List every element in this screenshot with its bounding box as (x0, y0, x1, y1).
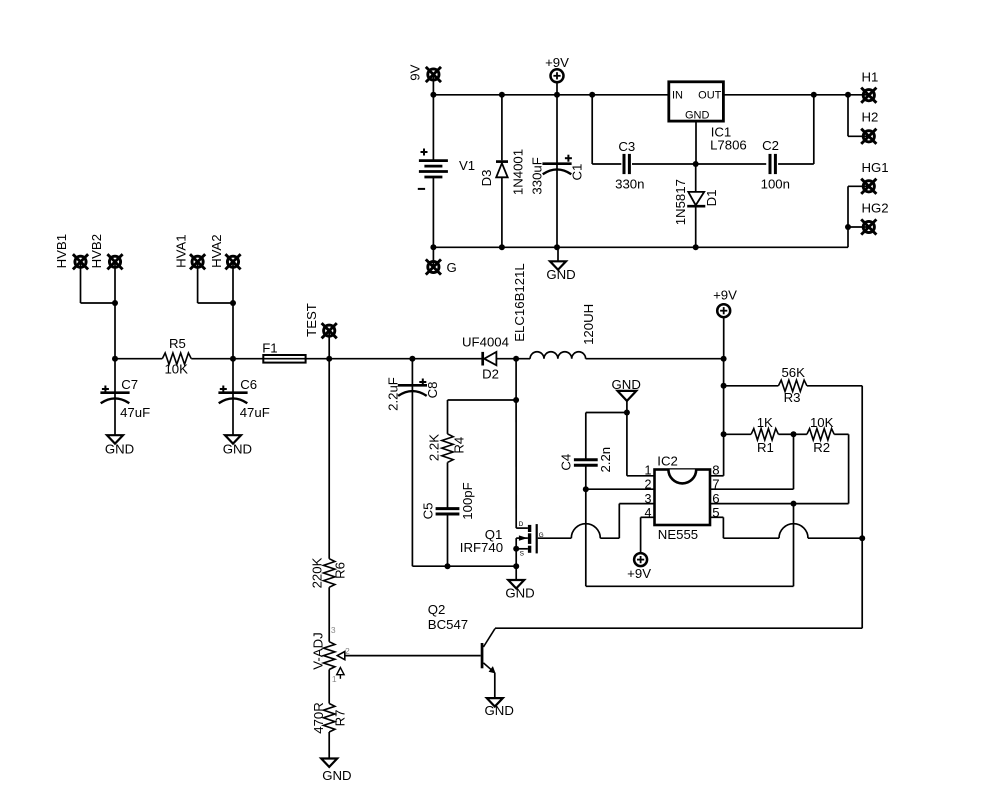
wire HG2 stub (848, 226, 869, 228)
svg-text:330n: 330n (615, 177, 644, 192)
node junction GND pin (693, 161, 699, 167)
pin number 1 (645, 463, 652, 477)
node junction IN branch (589, 92, 595, 98)
svg-text:GND: GND (546, 267, 575, 282)
terminal G (426, 247, 441, 274)
svg-text:10K: 10K (810, 415, 834, 430)
capacitor C4 (574, 460, 598, 465)
svg-text:100n: 100n (761, 176, 790, 191)
wire HG branch (848, 186, 869, 247)
label 330n (615, 177, 644, 192)
ground above 555 (618, 391, 637, 413)
wire bottom left rail (412, 565, 516, 567)
wire wiper to Q2 base (345, 655, 481, 657)
op-amp IC2 box (655, 470, 711, 526)
wire OUT to H1 (723, 94, 868, 96)
ground under R7 (321, 759, 337, 767)
svg-text:2: 2 (645, 477, 652, 491)
svg-text:7: 7 (712, 476, 719, 491)
label HG1 (862, 160, 889, 175)
node junction OUT C2 (811, 92, 817, 98)
terminal TEST (322, 323, 337, 359)
pin number 7 (712, 476, 719, 491)
label 10K R5 (164, 361, 188, 376)
svg-text:R5: R5 (169, 336, 186, 351)
svg-text:R2: R2 (813, 440, 830, 455)
resistor R3 (724, 380, 863, 391)
svg-text:220K: 220K (310, 557, 325, 588)
svg-text:C5: C5 (421, 503, 436, 520)
wire R1R2 to pin7 (710, 434, 794, 489)
wire pin6 down to bottom (586, 504, 794, 587)
label 330uF (530, 157, 545, 194)
wire C3 to C2 (632, 163, 766, 165)
svg-text:Q2: Q2 (428, 602, 446, 617)
wire C5 down (447, 514, 449, 566)
wire H2 branch (848, 95, 869, 137)
label GND under C6 (223, 441, 252, 456)
svg-text:S: S (520, 551, 525, 558)
label V1 (459, 158, 475, 173)
ground under C1 (550, 247, 566, 269)
svg-text:V1: V1 (459, 158, 475, 173)
wire pin2 (586, 488, 655, 490)
label R3 (784, 390, 801, 405)
svg-text:5: 5 (712, 505, 719, 520)
svg-text:R1: R1 (757, 440, 774, 455)
label GND under C7 (105, 441, 134, 456)
pin number 3 pot (331, 625, 336, 635)
label D1 (704, 190, 719, 207)
svg-text:4: 4 (645, 506, 652, 520)
svg-text:100pF: 100pF (460, 482, 475, 519)
power +9V top (551, 69, 564, 95)
node junction pin5 R3 (859, 535, 865, 541)
label 1N5817 (673, 179, 688, 225)
label V-ADJ (310, 632, 325, 669)
transistor Q1 drain wire (516, 400, 528, 528)
svg-text:R4: R4 (451, 437, 466, 454)
label 56K (781, 365, 805, 380)
battery V1 (418, 95, 448, 248)
svg-text:C8: C8 (425, 382, 440, 399)
diode D3 (496, 95, 508, 248)
ground under Q2 (487, 698, 503, 706)
diode D2 (483, 352, 530, 366)
label C3 (618, 139, 635, 154)
label L7806 (710, 137, 747, 152)
wire R4 top (448, 400, 517, 434)
svg-text:HG2: HG2 (862, 201, 889, 216)
node junction D3 top (499, 92, 505, 98)
node junction HG2 (845, 224, 851, 230)
wire pin5 (710, 517, 862, 538)
node junction R3 left (721, 383, 727, 389)
wire bottom rail top circuit (433, 246, 848, 248)
wire pot to R7 (328, 670, 330, 704)
wire pin3 (600, 504, 654, 539)
svg-text:120UH: 120UH (581, 304, 596, 345)
label HVB1 (54, 234, 69, 268)
label HVB2 (89, 234, 104, 268)
label 47uF C7 (120, 405, 150, 420)
fuse F1 (263, 355, 305, 363)
label 100n (761, 176, 790, 191)
capacitor C2 (770, 154, 775, 174)
node junction C1 bottom (554, 244, 560, 250)
svg-text:GND: GND (485, 703, 514, 718)
label IC2 (657, 454, 678, 469)
ground under C7 (107, 435, 123, 443)
node junction R1 R2 (791, 431, 797, 437)
svg-text:3: 3 (645, 492, 652, 506)
label 2.2K (427, 434, 442, 461)
transistor Q1 (516, 521, 543, 566)
node junction C5 bottom (445, 563, 451, 569)
svg-text:GND: GND (223, 441, 252, 456)
svg-text:L7806: L7806 (710, 137, 747, 152)
svg-text:R6: R6 (333, 562, 348, 579)
resistor R7 (324, 704, 335, 733)
label Q1 (485, 527, 503, 542)
svg-text:C2: C2 (762, 138, 779, 153)
svg-text:D1: D1 (704, 190, 719, 207)
svg-text:D: D (519, 521, 524, 528)
svg-text:G: G (447, 260, 457, 275)
label IRF740 (460, 540, 503, 555)
svg-text:9V: 9V (407, 64, 422, 80)
wire IC1 GND pin (695, 121, 697, 164)
svg-text:R3: R3 (784, 390, 801, 405)
label GND under Q1 (505, 586, 534, 601)
resistor R2 (794, 429, 849, 504)
label Q2 (428, 602, 446, 617)
op-amp IC1 regulator box (669, 82, 724, 122)
capacitor C5 (436, 509, 460, 514)
svg-text:GND: GND (505, 586, 534, 601)
node junction C7 top (112, 356, 118, 362)
capacitor C3 (624, 154, 629, 174)
svg-text:47uF: 47uF (240, 405, 270, 420)
terminal 9V (426, 67, 441, 95)
pin number 2 pot (345, 646, 350, 656)
terminal HG1 (861, 179, 876, 194)
resistor R6 (324, 559, 335, 588)
wire Vcc vertical (710, 359, 724, 476)
node junction C6 top (230, 356, 236, 362)
wire top rail (433, 94, 668, 96)
wire C4 bottom (585, 466, 587, 586)
svg-text:GND: GND (105, 441, 134, 456)
svg-text:C4: C4 (559, 454, 574, 471)
svg-text:C7: C7 (121, 377, 138, 392)
label HG2 (862, 201, 889, 216)
svg-text:IN: IN (672, 90, 683, 102)
potentiometer V-ADJ (324, 642, 345, 679)
label NE555 (658, 527, 698, 542)
resistor R1 (724, 429, 794, 440)
label 1K (757, 415, 773, 430)
svg-text:C1: C1 (569, 164, 584, 181)
wire inductor to +9V node (586, 358, 724, 360)
svg-text:2.2uF: 2.2uF (386, 377, 401, 411)
label C8 (425, 382, 440, 399)
label R5 (169, 336, 186, 351)
svg-text:F1: F1 (262, 340, 277, 355)
wire switch node down (515, 359, 517, 400)
terminal HG2 (861, 219, 876, 234)
label 100pF (460, 482, 475, 519)
wire gnd to C4 (586, 413, 627, 459)
svg-text:IRF740: IRF740 (460, 540, 503, 555)
label 120UH (581, 304, 596, 345)
diode D1 (687, 164, 705, 247)
node junction H2 branch (845, 92, 851, 98)
label C6 (240, 377, 257, 392)
node junction +9V rail (721, 356, 727, 362)
label F1 (262, 340, 277, 355)
node junction switch node (513, 356, 519, 362)
svg-text:1K: 1K (757, 415, 773, 430)
label D2 (482, 366, 499, 381)
svg-text:ELC16B121L: ELC16B121L (512, 263, 527, 341)
label G (447, 260, 457, 275)
node junction gnd C4 (624, 410, 630, 416)
node junction G (430, 244, 436, 250)
label GND under Q2 (485, 703, 514, 718)
svg-text:1N4001: 1N4001 (511, 149, 526, 195)
svg-text:1: 1 (645, 463, 652, 477)
svg-text:C6: C6 (240, 377, 257, 392)
svg-text:1N5817: 1N5817 (673, 179, 688, 225)
node junction C8 top (409, 356, 415, 362)
node junction Q1 gnd (513, 563, 519, 569)
label UF4004 (462, 334, 509, 349)
node junction R4 top (513, 397, 519, 403)
terminal H1 (861, 88, 876, 103)
label 1N4001 (511, 149, 526, 195)
wire Q2 collector line (495, 627, 862, 629)
capacitor C1 (542, 95, 572, 248)
label R4 (451, 437, 466, 454)
label C4 (559, 454, 574, 471)
node junction pin6 (791, 501, 797, 507)
svg-text:HVB2: HVB2 (89, 234, 104, 268)
terminal HVB1 (73, 254, 115, 303)
node junction TEST (326, 356, 332, 362)
svg-text:D3: D3 (479, 170, 494, 187)
label 9V (407, 64, 422, 80)
wire R6 to pot (328, 587, 330, 641)
label C1 (569, 164, 584, 181)
label HVA2 (209, 234, 224, 267)
svg-text:56K: 56K (781, 365, 805, 380)
svg-text:C3: C3 (618, 139, 635, 154)
svg-text:2.2n: 2.2n (598, 447, 613, 473)
wire R4 to C5 (447, 462, 449, 508)
label GND above 555 (612, 377, 641, 392)
label H1 (862, 69, 879, 84)
label R7 (333, 710, 348, 727)
label H2 (862, 109, 879, 124)
wire R5 to D2 (191, 358, 482, 360)
svg-text:R7: R7 (333, 710, 348, 727)
svg-text:470R: 470R (311, 702, 326, 734)
svg-text:V-ADJ: V-ADJ (310, 632, 325, 669)
label +9V mid (713, 288, 737, 303)
node junction R1 left (721, 431, 727, 437)
wire pin6 (710, 503, 849, 505)
svg-text:NE555: NE555 (658, 527, 698, 542)
capacitor C7 (100, 359, 129, 436)
svg-text:H2: H2 (862, 109, 879, 124)
label IC1 (711, 124, 732, 139)
svg-text:+9V: +9V (545, 55, 569, 70)
pin number 3 (645, 492, 652, 506)
transistor Q2 (481, 629, 496, 699)
svg-text:47uF: 47uF (120, 405, 150, 420)
node junction D3 bottom (499, 244, 505, 250)
pin number 4 (645, 506, 652, 520)
svg-text:8: 8 (712, 462, 719, 477)
node junction Q1 source (513, 546, 519, 552)
svg-text:+9V: +9V (627, 566, 651, 581)
wire R3 right vertical (861, 386, 863, 628)
capacitor C6 (218, 359, 247, 436)
label C2 (762, 138, 779, 153)
svg-text:2: 2 (345, 646, 350, 656)
wire IN branch down (592, 95, 621, 164)
wire TEST down to R6 (328, 359, 330, 559)
pin number 6 (712, 491, 719, 506)
wire pin1 (627, 413, 655, 476)
label 2.2n (598, 447, 613, 473)
svg-text:OUT: OUT (698, 90, 722, 102)
label GND under R7 (322, 768, 351, 783)
pin number 2 (645, 477, 652, 491)
svg-text:6: 6 (712, 491, 719, 506)
label 2.2uF C8 (386, 377, 401, 411)
ground under C6 (225, 435, 241, 443)
node junction HVB (112, 300, 118, 306)
svg-text:H1: H1 (862, 69, 879, 84)
label HVA1 (173, 234, 188, 267)
terminal HVB2 (107, 254, 122, 359)
label 220K (310, 557, 325, 588)
label 10K R2 (810, 415, 834, 430)
label 47uF C6 (240, 405, 270, 420)
label TEST (304, 303, 319, 337)
svg-text:HVB1: HVB1 (54, 234, 69, 268)
wire pin4 (641, 517, 655, 553)
svg-text:TEST: TEST (304, 303, 319, 337)
wire Q1 gate (538, 524, 601, 539)
terminal H2 (861, 129, 876, 144)
pin number 5 (712, 505, 719, 520)
svg-text:GND: GND (322, 768, 351, 783)
node junction D1 bottom (693, 244, 699, 250)
pin number 1 pot (332, 674, 337, 684)
svg-text:IC2: IC2 (657, 454, 678, 469)
label C7 (121, 377, 138, 392)
svg-text:HVA1: HVA1 (173, 234, 188, 267)
label D3 (479, 170, 494, 187)
svg-text:10K: 10K (164, 361, 188, 376)
label C5 (421, 503, 436, 520)
svg-text:3: 3 (331, 625, 336, 635)
label BC547 (428, 617, 468, 632)
power +9V 555 (634, 553, 647, 566)
svg-text:1: 1 (332, 674, 337, 684)
label +9V top (545, 55, 569, 70)
ground under Q1 (508, 566, 524, 588)
svg-text:GND: GND (612, 377, 641, 392)
resistor R4 (442, 434, 453, 463)
svg-text:HVA2: HVA2 (209, 234, 224, 267)
pin number 8 (712, 462, 719, 477)
svg-text:HG1: HG1 (862, 160, 889, 175)
svg-text:GND: GND (685, 109, 710, 121)
label R1 (757, 440, 774, 455)
inductor L1 (530, 352, 586, 359)
svg-text:D2: D2 (482, 366, 499, 381)
label 470R (311, 702, 326, 734)
node junction HVA (230, 300, 236, 306)
label GND under C1 (546, 267, 575, 282)
capacitor C8 (398, 359, 427, 567)
node junction top rail at 9V (430, 92, 436, 98)
terminal HVA1 (190, 254, 233, 303)
label R2 (813, 440, 830, 455)
wire rail to R5 (115, 358, 162, 360)
node junction C1 top (554, 92, 560, 98)
resistor R5 (162, 353, 191, 364)
svg-text:2.2K: 2.2K (427, 434, 442, 461)
wire C2 right up (778, 95, 814, 164)
wire R7 to gnd (328, 732, 330, 759)
svg-text:UF4004: UF4004 (462, 334, 509, 349)
node junction C4 pin2 (583, 486, 589, 492)
power +9V mid (717, 304, 730, 359)
svg-text:330uF: 330uF (530, 157, 545, 194)
label R6 (333, 562, 348, 579)
terminal HVA2 (225, 254, 240, 359)
svg-text:BC547: BC547 (428, 617, 468, 632)
svg-text:+9V: +9V (713, 288, 737, 303)
label ELC16B121L (512, 263, 527, 341)
label +9V 555 (627, 566, 651, 581)
